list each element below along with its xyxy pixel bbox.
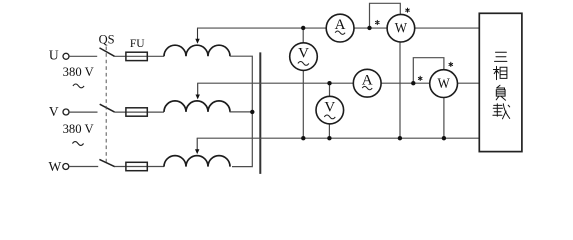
- fuse FU2: [126, 108, 147, 116]
- wire V2 top branch: [329, 83, 331, 96]
- wire V1 top branch: [302, 28, 304, 43]
- junction line3 / V1: [301, 136, 305, 140]
- polarity mark W1 line side: [376, 20, 380, 24]
- autotransformer winding (phase W): [164, 156, 230, 167]
- wire W1 voltage coil return to line 3: [399, 42, 401, 138]
- three-phase load box: [479, 13, 522, 151]
- wire QS to coil (phase W, through fuse): [115, 166, 164, 168]
- wire line 2 (W2 to load): [457, 82, 479, 84]
- svg-text:A: A: [362, 72, 373, 88]
- wire line 1 (tap U to ammeter A1): [197, 27, 326, 29]
- junction line3 / V2: [327, 136, 331, 140]
- wire W2 voltage coil return to line 3: [443, 98, 445, 139]
- transformer core bar: [259, 52, 261, 173]
- svg-text:V: V: [49, 104, 59, 119]
- wire QS to coil (phase V, through fuse): [115, 111, 164, 113]
- junction line3 / W2 return: [442, 136, 446, 140]
- AC tilde (U-V): [73, 84, 84, 88]
- load label char 1 (san): [495, 52, 507, 61]
- wire neutral bus (winding ends star): [230, 56, 252, 166]
- polarity mark W2 voltage side: [449, 62, 453, 66]
- wire V1 bottom branch to line 3: [302, 70, 304, 138]
- svg-text:V: V: [324, 99, 335, 115]
- wattmeter W2: [430, 70, 458, 98]
- svg-text:V: V: [298, 46, 309, 62]
- wire QS to coil (phase U, through fuse): [115, 55, 165, 57]
- wire W terminal to QS pole 3: [69, 166, 98, 168]
- svg-text:W: W: [395, 20, 408, 36]
- svg-text:U: U: [49, 47, 59, 62]
- wire V2 bottom branch to line 3: [328, 124, 330, 138]
- junction bus / winding V: [250, 110, 254, 114]
- junction line2 / V2: [327, 81, 331, 85]
- wire line 1 (W1 to load): [415, 27, 480, 29]
- wiper arrow T3 (phase W): [196, 138, 198, 150]
- load label char 4 (zai): [493, 104, 510, 119]
- terminal W: [63, 164, 69, 170]
- wire line 1 (A1 to W1): [354, 27, 387, 29]
- switch QS pole 1 blade: [100, 48, 115, 56]
- fuse FU1: [126, 52, 147, 60]
- svg-text:QS: QS: [99, 32, 115, 47]
- junction line1 / V1: [301, 26, 305, 30]
- fuse FU3: [126, 162, 147, 170]
- wire V terminal to QS pole 2: [69, 111, 97, 113]
- wiper arrow T2 (phase V): [197, 83, 199, 95]
- ammeter A2: [353, 69, 381, 97]
- ammeter A1: [326, 14, 354, 42]
- wire W2 voltage coil bracket: [413, 58, 444, 83]
- autotransformer winding (phase U): [164, 45, 230, 56]
- junction line1 / W1 voltage: [367, 26, 371, 30]
- terminal U: [63, 53, 69, 59]
- wire line 2 (A2 to W2): [381, 82, 430, 84]
- svg-text:380 V: 380 V: [63, 122, 94, 136]
- polarity mark W2 line side: [418, 76, 422, 80]
- switch QS pole 2 blade: [100, 104, 115, 112]
- svg-text:380 V: 380 V: [63, 65, 94, 79]
- junction line3 / W1 return: [398, 136, 402, 140]
- wiper arrow T1 (phase U): [197, 28, 199, 40]
- switch QS pole 3 blade: [99, 159, 114, 166]
- svg-text:W: W: [437, 76, 450, 92]
- voltmeter V2: [316, 96, 344, 124]
- AC tilde (V-W): [72, 142, 83, 146]
- svg-text:A: A: [335, 17, 346, 33]
- wire W1 voltage coil bracket: [370, 3, 401, 28]
- wattmeter W1: [387, 14, 415, 42]
- junction line2 / W2 voltage: [411, 81, 415, 85]
- wire line 3 (tap W to load): [197, 137, 480, 139]
- svg-text:FU: FU: [130, 36, 145, 50]
- wire U terminal to QS pole 1: [69, 55, 97, 57]
- svg-text:W: W: [49, 159, 62, 174]
- polarity mark W1 voltage side: [406, 8, 410, 12]
- switch QS mechanical link (dashed): [105, 47, 107, 163]
- wire winding V end to bus: [230, 111, 253, 113]
- autotransformer winding (phase V): [164, 101, 230, 112]
- wire line 2 (tap V to ammeter A2): [197, 82, 353, 84]
- load label char 3 (fu): [496, 85, 505, 100]
- voltmeter V1: [290, 43, 318, 71]
- load label char 2 (xiang): [493, 66, 507, 79]
- terminal V: [63, 109, 69, 115]
